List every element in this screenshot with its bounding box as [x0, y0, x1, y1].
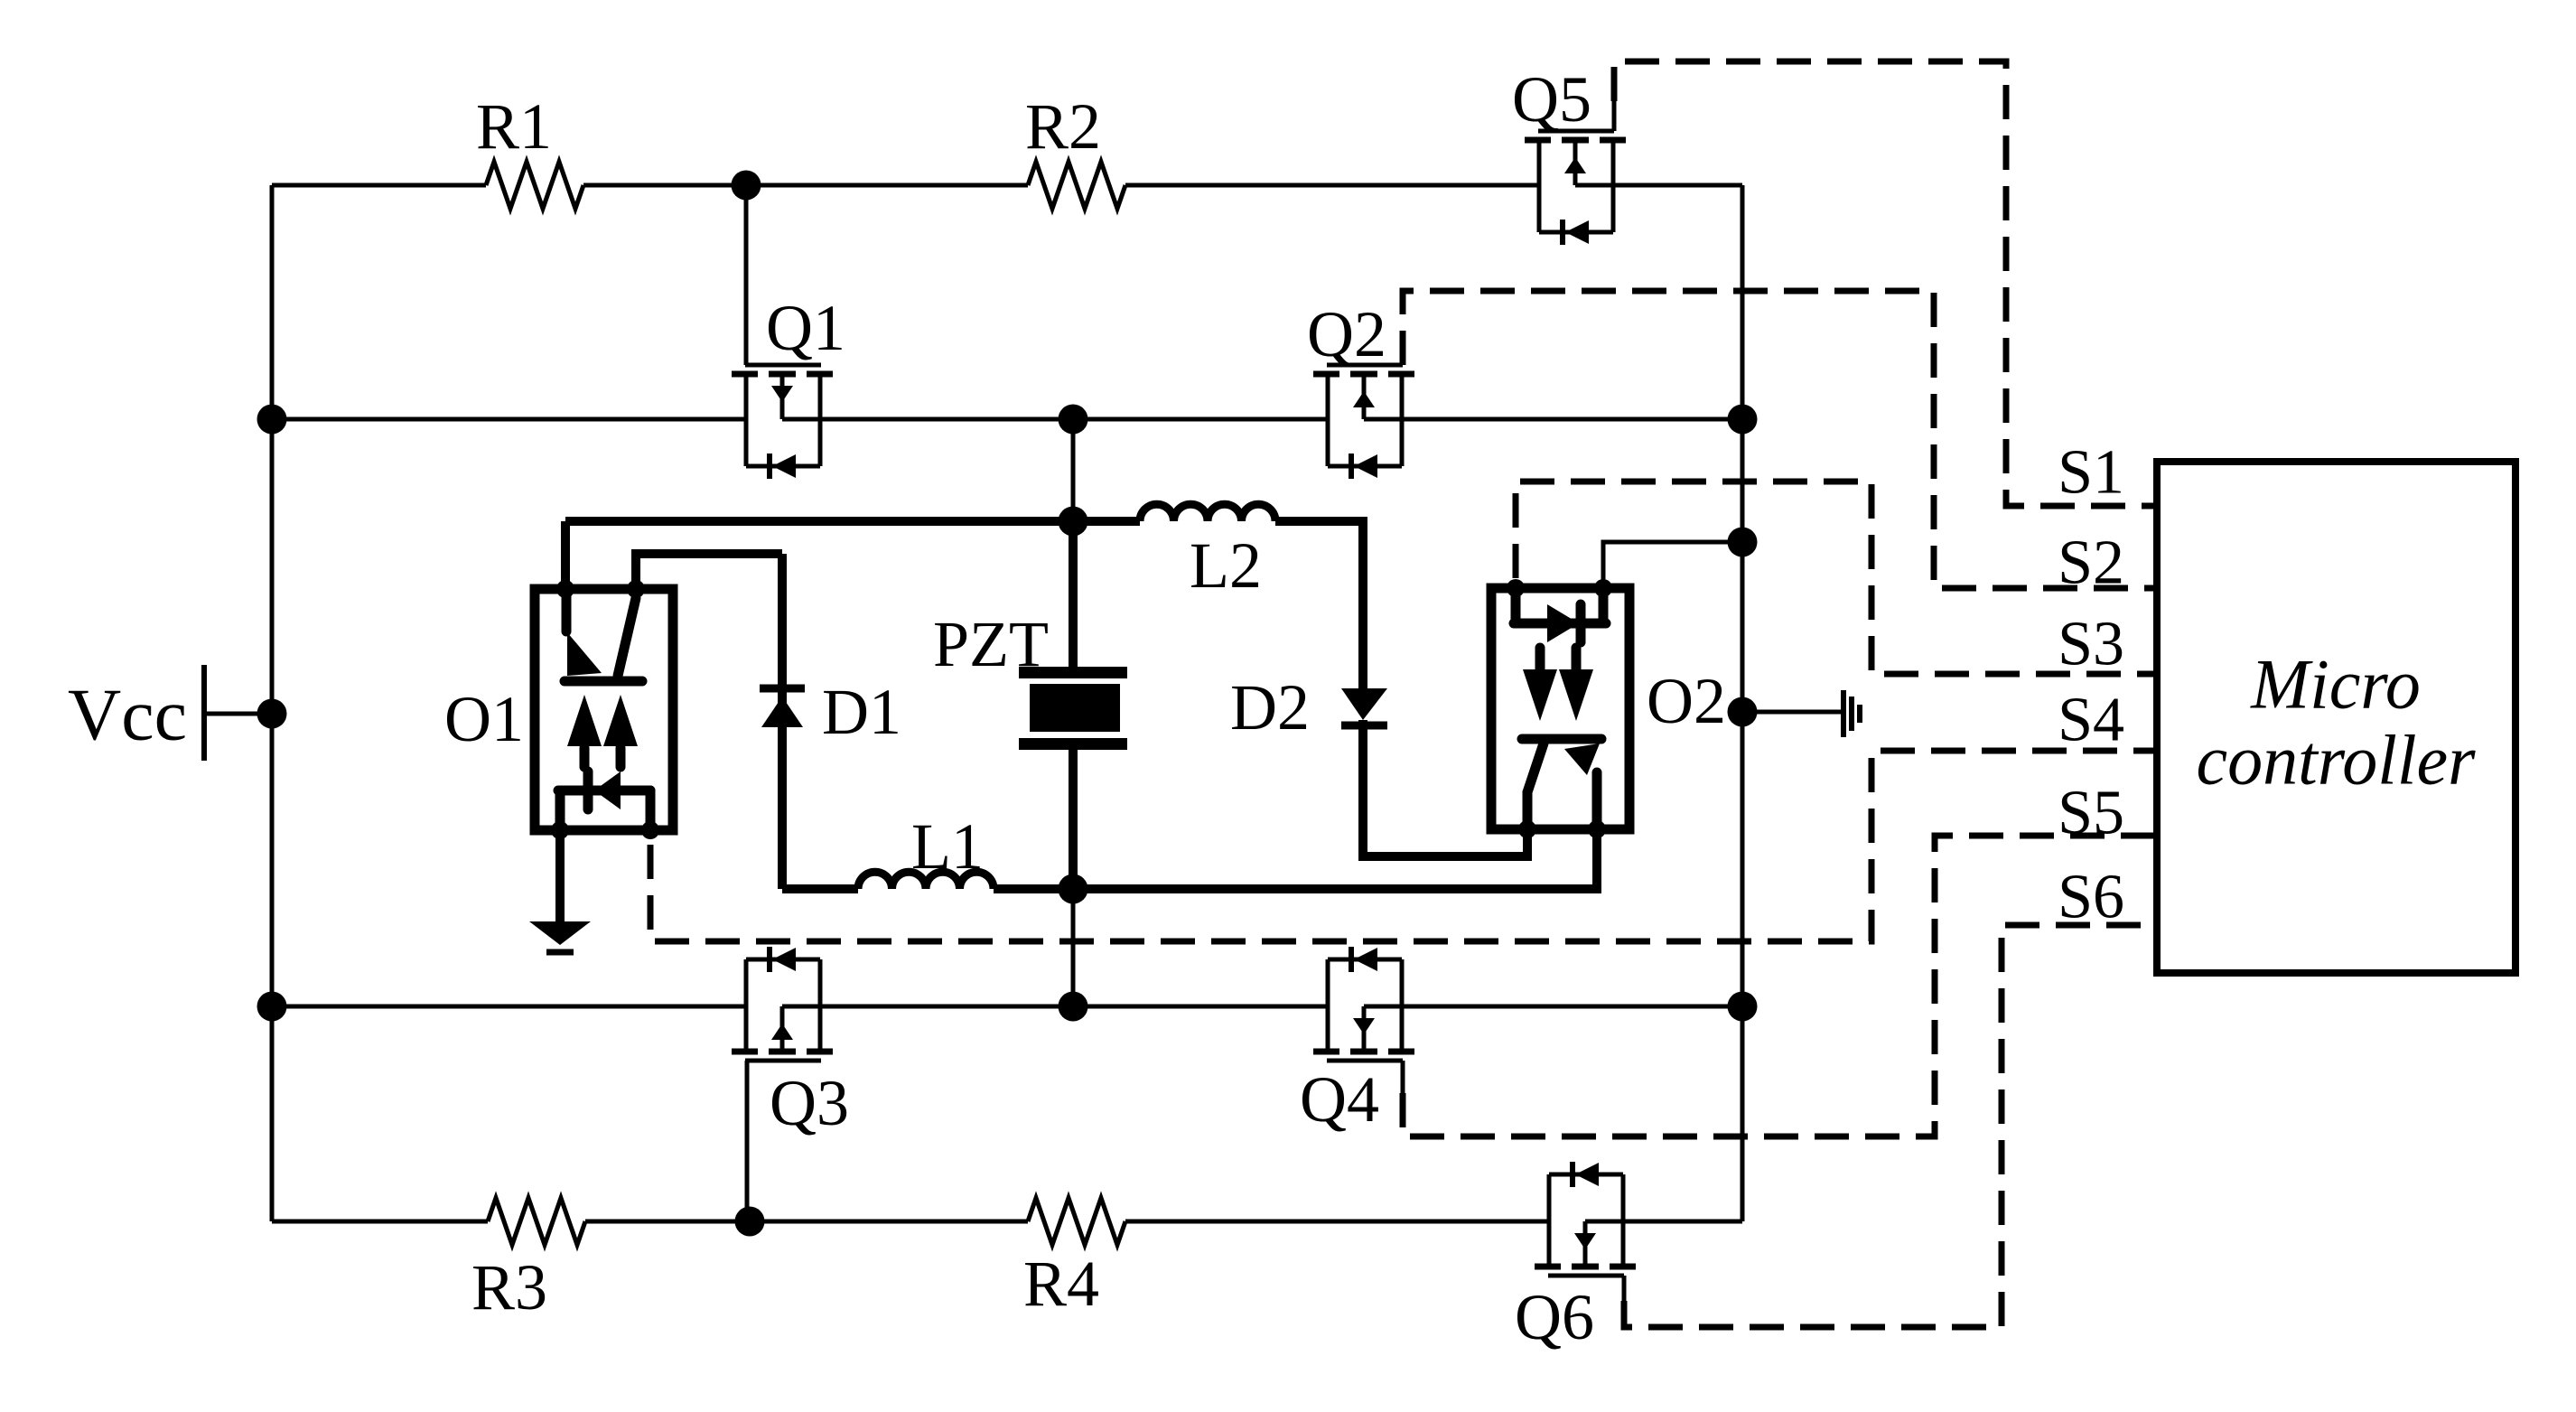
piezo PZT — [1019, 667, 1127, 678]
wire A O1-PZT top — [565, 517, 1073, 526]
optocoupler O2 — [1491, 588, 1629, 829]
wire row2 right — [1364, 417, 1742, 422]
transistor Q1 — [732, 371, 758, 378]
svg-text:Micro: Micro — [2250, 645, 2421, 724]
wire bottom rail left — [272, 1220, 488, 1224]
wire Q5 gate stub — [1612, 101, 1617, 131]
wire row2 left — [272, 417, 746, 422]
wire PZT top — [1069, 521, 1078, 669]
wire PZT col lower — [1071, 889, 1076, 1006]
node wireA-PZT — [1059, 507, 1088, 537]
node row3-left — [257, 992, 287, 1022]
wire D1 branch — [778, 554, 787, 889]
wire right rail — [1741, 185, 1745, 1221]
node bottom-PZT — [1059, 874, 1088, 904]
svg-text:R4: R4 — [1023, 1248, 1099, 1320]
node Vcc junction — [257, 699, 287, 729]
wire PZT col upper — [1071, 419, 1076, 521]
Vcc terminal — [201, 665, 207, 761]
node R3-R4 junction — [735, 1207, 765, 1237]
resistor R1 — [486, 162, 583, 209]
svg-text:L2: L2 — [1190, 529, 1262, 602]
dashed S1 path Q5-MCU — [1614, 61, 2157, 506]
wire row3 mid — [782, 1005, 1328, 1009]
wire D2 down — [1363, 720, 1527, 856]
node row2-right — [1728, 405, 1758, 435]
svg-text:O1: O1 — [444, 683, 524, 755]
diode D1 — [760, 685, 805, 693]
wire to ground — [1742, 710, 1841, 715]
wire L1 to PZT node — [994, 884, 1073, 893]
wire O1 pin2 up — [636, 554, 782, 589]
node row3-PZT — [1059, 992, 1088, 1022]
wire L2 left — [1073, 517, 1140, 526]
wire top rail left segment — [272, 183, 486, 188]
wire row3 right — [1364, 1005, 1742, 1009]
ground symbol right — [1841, 690, 1846, 737]
resistor R2 — [1028, 162, 1125, 209]
transistor Q3 — [732, 1049, 758, 1055]
svg-text:S6: S6 — [2058, 863, 2124, 932]
wire Q1 gate — [744, 185, 749, 365]
wire bottom rail mid — [585, 1220, 1028, 1224]
wire Q5 to right rail — [1575, 183, 1742, 188]
svg-text:Q1: Q1 — [766, 292, 845, 364]
svg-text:S1: S1 — [2058, 438, 2124, 508]
svg-text:Q6: Q6 — [1515, 1281, 1594, 1353]
wire PZT bottom — [1069, 750, 1078, 889]
transistor Q5 — [1525, 137, 1551, 144]
diode D2 — [1341, 688, 1387, 720]
node row3-right — [1728, 992, 1758, 1022]
wire left rail — [270, 185, 275, 1221]
wire bottom rail to Q6 — [1125, 1220, 1549, 1224]
micro controller U1 — [2157, 462, 2515, 973]
wire O1 ground pin — [555, 830, 565, 923]
svg-text:L1: L1 — [911, 810, 984, 883]
wire row3 left — [272, 1005, 746, 1009]
dashed S4 path O1-MCU — [650, 751, 2157, 941]
ground O1 — [529, 921, 591, 945]
svg-text:R3: R3 — [471, 1251, 547, 1323]
resistor R3 — [488, 1198, 585, 1245]
inductor L2 — [1140, 504, 1275, 521]
wire Q6 gate stub — [1622, 1276, 1627, 1301]
svg-text:S2: S2 — [2058, 528, 2124, 598]
wire PZT-O2 bottom — [1073, 829, 1597, 889]
wire Q6 to right corner — [1585, 1220, 1742, 1224]
optocoupler O1 — [535, 589, 673, 830]
svg-text:Q4: Q4 — [1300, 1063, 1379, 1136]
wire Q3 gate — [745, 1061, 750, 1221]
dashed S3 path O2-MCU — [1516, 482, 2157, 674]
dashed S5 path Q4-MCU — [1403, 836, 2157, 1136]
svg-text:Q2: Q2 — [1307, 298, 1386, 370]
svg-text:Vcc: Vcc — [68, 674, 187, 756]
node O2-top wire — [1728, 528, 1758, 557]
svg-text:S3: S3 — [2058, 610, 2124, 679]
transistor Q6 — [1535, 1264, 1561, 1270]
svg-text:R2: R2 — [1025, 90, 1101, 163]
node O2-ground — [1728, 697, 1758, 727]
svg-text:Q5: Q5 — [1512, 63, 1591, 136]
svg-text:S4: S4 — [2058, 686, 2124, 755]
wire row2 mid — [782, 417, 1328, 422]
transistor Q4 — [1313, 1049, 1339, 1055]
dashed S2 path Q2-MCU — [1403, 291, 2157, 588]
resistor R4 — [1028, 1198, 1125, 1245]
transistor Q2 — [1313, 371, 1339, 378]
svg-text:R1: R1 — [476, 90, 552, 163]
svg-text:controller: controller — [2196, 721, 2476, 800]
svg-text:D2: D2 — [1230, 671, 1310, 743]
wire D1 to L1 — [782, 884, 858, 893]
svg-text:PZT: PZT — [933, 608, 1049, 680]
node row2-PZT — [1059, 405, 1088, 435]
wire top rail to Q5 — [1125, 183, 1539, 188]
wire L2 to D2 — [1275, 521, 1363, 688]
inductor L1 — [858, 872, 994, 889]
node R1-R2 junction — [732, 171, 761, 201]
svg-text:D1: D1 — [822, 676, 901, 748]
wire Q4 gate stub — [1401, 1061, 1405, 1093]
svg-text:Q3: Q3 — [770, 1067, 849, 1139]
svg-text:S5: S5 — [2058, 779, 2124, 848]
svg-text:O2: O2 — [1647, 665, 1726, 737]
wire O2 pin2 to rail — [1603, 542, 1742, 588]
node row2-left — [257, 405, 287, 435]
wire top rail mid segment — [583, 183, 1028, 188]
dashed S6 path Q6-MCU — [1624, 925, 2157, 1327]
wire O1 pin1 up — [561, 521, 570, 589]
